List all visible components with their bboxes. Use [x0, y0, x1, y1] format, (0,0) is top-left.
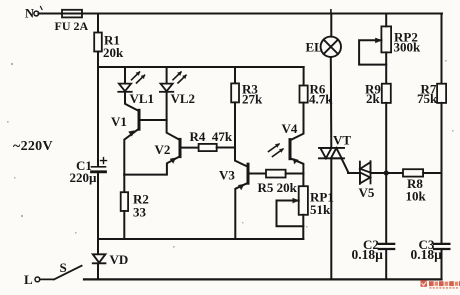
svg-text:V1: V1 [111, 114, 127, 129]
svg-text:220µ: 220µ [70, 170, 98, 185]
capacitor C1 [92, 158, 107, 172]
transistor V1 emitter arrow [129, 131, 135, 137]
wire VL1 to V1 collector [125, 92, 139, 111]
svg-text:VT: VT [333, 133, 351, 148]
wire R4 to R3 node [217, 147, 235, 149]
diode VD [93, 254, 106, 263]
wire bottom rail [84, 278, 442, 280]
svg-text:51k: 51k [310, 202, 331, 217]
LED VL1 arrowheads [136, 72, 145, 79]
LED VL2 arrowheads [178, 72, 187, 79]
potentiometer RP1 wiper [277, 201, 304, 227]
wire EL to VT [330, 57, 333, 148]
diac V5 [360, 161, 371, 184]
watermark logo [421, 280, 460, 289]
wire R7 branch [441, 14, 443, 84]
switch S [40, 266, 82, 280]
svg-text:V5: V5 [359, 185, 375, 200]
svg-text:~220V: ~220V [13, 139, 53, 154]
wire R7 to C3 [441, 103, 443, 243]
wire RP2 top [385, 14, 387, 27]
phototransistor V4 emitter arrow [293, 159, 298, 164]
svg-text:EL: EL [306, 40, 324, 55]
wire R3 branch [234, 67, 236, 83]
svg-text:VL1: VL1 [130, 91, 155, 106]
node EL top junction tick [330, 10, 332, 14]
capacitor C2 [379, 244, 395, 249]
node junction V5/R9/R8 [384, 171, 389, 176]
capacitor C3 [434, 244, 449, 249]
wire mid rail [98, 238, 303, 240]
transistor V1 emitter [124, 129, 139, 175]
wire left vertical to C1 [97, 67, 99, 166]
wire VT gate [342, 158, 360, 173]
phototransistor V4 emitter [290, 158, 303, 186]
triac VT [319, 148, 344, 158]
wire R5 to RP1 node [286, 173, 304, 175]
transistor V2 emitter [124, 156, 180, 174]
wire V1/V2 emitters to R2 [123, 175, 125, 193]
svg-text:33: 33 [133, 204, 147, 219]
svg-text:FU 2A: FU 2A [55, 19, 89, 33]
wire RP2 to R9 [385, 52, 387, 83]
svg-text:V4: V4 [282, 121, 298, 136]
svg-text:V3: V3 [219, 168, 235, 183]
wire V1 base to VL2 line [140, 119, 166, 121]
potentiometer RP2 [381, 26, 391, 52]
resistor R8 [403, 169, 423, 176]
svg-text:VD: VD [110, 252, 129, 267]
wire R2 to mid rail [123, 211, 125, 239]
transistor V3 [247, 164, 250, 183]
resistor R2 [121, 192, 128, 211]
wire R6 branch corner [303, 67, 305, 86]
scan speckles [7, 60, 454, 248]
wire V3 base to R5 [249, 173, 266, 175]
terminal L [35, 277, 40, 282]
transistor V3 emitter [235, 183, 248, 239]
svg-text:V2: V2 [155, 142, 171, 157]
svg-text:2k: 2k [366, 91, 381, 106]
wire V2 base to R4 [181, 147, 198, 149]
wire mid rail to VD [97, 239, 99, 254]
svg-text:20k: 20k [103, 45, 124, 60]
lamp EL [321, 37, 341, 57]
wire EL branch [330, 14, 332, 37]
svg-text:L: L [24, 272, 33, 287]
svg-text:300k: 300k [394, 40, 422, 55]
phototransistor V4 light arrows [269, 144, 284, 157]
svg-text:75k: 75k [417, 91, 438, 106]
LED VL1 [118, 72, 144, 92]
phototransistor V4 [289, 140, 292, 159]
wire R6 to V4 collector [290, 103, 304, 141]
wire R3 to V3 collector [235, 102, 248, 166]
wire C1 to mid rail [97, 173, 99, 239]
resistor R9 [382, 84, 391, 103]
svg-text:S: S [60, 260, 67, 275]
wire VT to bottom rail [330, 158, 332, 279]
fuse FU [62, 10, 82, 18]
transistor V3 emitter arrow [238, 184, 244, 190]
wire R1 to inner rail [97, 52, 99, 68]
svg-text:R5 20k: R5 20k [258, 180, 298, 195]
transistor V2 emitter arrow [170, 158, 176, 164]
wire C2 to bottom rail [385, 250, 387, 279]
wire left vertical upper [97, 14, 99, 33]
wire C3 to bottom rail [441, 250, 443, 279]
LED VL2 [160, 72, 186, 92]
wire VL2 to V2 collector [167, 92, 180, 140]
resistor R7 [437, 84, 446, 103]
wire R9 to C2 [385, 103, 387, 243]
resistor R1 [94, 33, 102, 52]
potentiometer RP1 wiper arrowhead [293, 198, 299, 203]
wire VL2 branch [166, 67, 168, 83]
resistor R5 [266, 170, 286, 178]
svg-text:VL2: VL2 [171, 91, 196, 106]
svg-text:27k: 27k [242, 92, 263, 107]
svg-text:0.18µ: 0.18µ [352, 247, 384, 262]
resistor R3 [231, 83, 239, 102]
svg-text:R4 47k: R4 47k [190, 129, 233, 144]
potentiometer RP2 wiper [359, 40, 386, 64]
svg-text:N: N [25, 7, 34, 21]
potentiometer RP1 [299, 186, 308, 215]
wire RP1 to mid rail [302, 215, 304, 239]
node tick above N [41, 7, 43, 10]
wire R8 to R7 line [423, 172, 441, 174]
resistor R6 [300, 86, 308, 103]
svg-text:4.7k: 4.7k [309, 91, 333, 106]
terminal N [34, 11, 39, 16]
wire top rail [39, 13, 443, 15]
svg-text:0.18µ: 0.18µ [411, 247, 443, 262]
wire inner rail [98, 66, 304, 68]
wire V5 to R8 [371, 172, 404, 174]
svg-text:10k: 10k [406, 189, 427, 204]
wire VD to bottom rail [97, 263, 99, 279]
transistor V1 [138, 110, 141, 129]
transistor V2 [179, 139, 182, 156]
potentiometer RP2 wiper arrowhead [375, 38, 381, 43]
resistor R4 [199, 144, 217, 151]
wire VL1 branch [124, 67, 126, 83]
